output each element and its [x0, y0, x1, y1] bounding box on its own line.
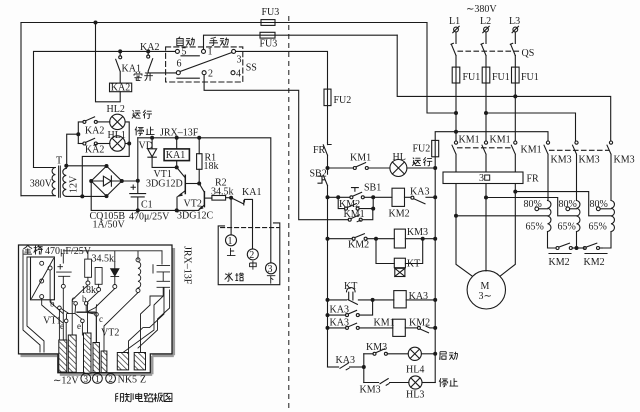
svg-text:∼380V: ∼380V	[466, 4, 497, 15]
svg-text:KM1: KM1	[490, 135, 511, 146]
svg-text:b: b	[50, 299, 55, 309]
svg-text:4: 4	[236, 69, 241, 80]
svg-text:HL: HL	[393, 152, 406, 163]
svg-text:T: T	[56, 156, 62, 167]
svg-text:FU1: FU1	[463, 72, 481, 83]
svg-text:FU1: FU1	[492, 72, 510, 83]
svg-text:1: 1	[95, 374, 100, 384]
svg-text:KT: KT	[344, 281, 357, 292]
svg-text:KM1: KM1	[459, 135, 480, 146]
svg-text:3: 3	[479, 173, 484, 184]
svg-text:QS: QS	[522, 48, 535, 59]
svg-text:C1: C1	[141, 200, 153, 211]
svg-text:380V: 380V	[30, 178, 53, 189]
svg-text:KM2: KM2	[389, 209, 410, 220]
svg-text:NK5: NK5	[118, 374, 137, 385]
svg-text:KM3: KM3	[579, 155, 600, 166]
svg-text:∼12V: ∼12V	[53, 376, 79, 387]
svg-text:L1: L1	[449, 16, 460, 27]
svg-text:65%: 65%	[526, 222, 544, 233]
svg-text:34.5k: 34.5k	[92, 253, 115, 264]
svg-text:SS: SS	[246, 63, 257, 74]
svg-text:3: 3	[237, 55, 242, 66]
svg-text:3: 3	[84, 374, 89, 384]
svg-text:KM2: KM2	[584, 257, 605, 268]
svg-text:KM3: KM3	[407, 227, 428, 238]
svg-text:1: 1	[228, 236, 233, 247]
svg-text:1: 1	[208, 47, 213, 58]
svg-text:KA3: KA3	[410, 187, 429, 198]
svg-text:FU2: FU2	[334, 95, 352, 106]
svg-text:KM1: KM1	[521, 145, 542, 156]
svg-text:Z: Z	[140, 374, 146, 385]
svg-text:2: 2	[249, 250, 254, 261]
svg-text:6: 6	[177, 59, 182, 70]
svg-text:HL3: HL3	[406, 390, 424, 401]
svg-text:L3: L3	[509, 16, 520, 27]
svg-text:3DG12D: 3DG12D	[146, 179, 183, 190]
svg-text:SB2: SB2	[310, 169, 327, 180]
svg-text:c: c	[72, 294, 76, 304]
svg-text:80%: 80%	[559, 199, 577, 210]
svg-text:VT2: VT2	[101, 328, 119, 339]
svg-text:5: 5	[182, 47, 187, 58]
svg-text:HL4: HL4	[406, 365, 424, 376]
svg-text:e: e	[77, 321, 81, 331]
svg-text:FR: FR	[313, 145, 326, 156]
svg-text:65%: 65%	[558, 222, 576, 233]
svg-text:FU1: FU1	[521, 72, 539, 83]
svg-text:KA3: KA3	[330, 305, 349, 316]
svg-text:KA3: KA3	[409, 291, 428, 302]
svg-text:2: 2	[208, 69, 213, 80]
svg-text:KA2: KA2	[85, 145, 104, 156]
svg-text:34.5k: 34.5k	[211, 186, 234, 197]
svg-text:b: b	[82, 294, 87, 304]
svg-text:3DG12C: 3DG12C	[177, 211, 213, 222]
svg-text:KA3: KA3	[336, 355, 355, 366]
svg-text:FU3: FU3	[262, 7, 280, 18]
svg-text:SB1: SB1	[364, 183, 381, 194]
svg-text:KA1: KA1	[122, 64, 141, 75]
svg-text:e: e	[60, 321, 64, 331]
svg-text:470μF/25V: 470μF/25V	[45, 246, 92, 257]
svg-text:HL2: HL2	[107, 104, 125, 115]
svg-text:1A/50V: 1A/50V	[93, 220, 126, 231]
svg-text:VD: VD	[139, 141, 153, 152]
svg-text:2: 2	[108, 374, 113, 384]
svg-text:JRX–13F: JRX–13F	[182, 246, 193, 285]
svg-text:KM3: KM3	[614, 155, 635, 166]
svg-text:KA2: KA2	[111, 83, 130, 94]
svg-text:KM1: KM1	[350, 153, 371, 164]
svg-text:KM1: KM1	[344, 209, 365, 220]
svg-text:KT: KT	[407, 259, 420, 270]
svg-text:KM3: KM3	[366, 342, 387, 353]
svg-text:KM2: KM2	[549, 257, 570, 268]
svg-text:65%: 65%	[589, 222, 607, 233]
svg-text:KM2: KM2	[409, 318, 430, 329]
svg-text:L2: L2	[480, 16, 491, 27]
svg-text:3∼: 3∼	[479, 291, 492, 302]
svg-text:KA2: KA2	[85, 125, 104, 136]
svg-text:470μ/25V: 470μ/25V	[129, 212, 170, 223]
svg-text:VT1: VT1	[43, 315, 61, 326]
svg-text:KM3: KM3	[551, 155, 572, 166]
svg-text:KA1: KA1	[166, 150, 185, 161]
svg-text:KM2: KM2	[348, 240, 369, 251]
svg-text:JRX–13F: JRX–13F	[160, 127, 199, 138]
svg-text:c: c	[99, 314, 103, 324]
svg-text:3: 3	[268, 264, 273, 275]
svg-text:18k: 18k	[204, 161, 219, 172]
svg-text:12V: 12V	[69, 175, 80, 193]
svg-text:KA3: KA3	[330, 318, 349, 329]
svg-text:KA2: KA2	[140, 42, 159, 53]
svg-text:KM3: KM3	[360, 385, 381, 396]
svg-text:KM1: KM1	[374, 318, 395, 329]
svg-text:FU3: FU3	[260, 39, 278, 50]
svg-text:80%: 80%	[524, 199, 542, 210]
svg-text:VT2: VT2	[184, 199, 202, 210]
svg-text:HL1: HL1	[108, 130, 126, 141]
svg-text:80%: 80%	[590, 199, 608, 210]
svg-text:FR: FR	[527, 174, 540, 185]
svg-text:KA1: KA1	[242, 187, 261, 198]
svg-text:FU2: FU2	[413, 144, 431, 155]
